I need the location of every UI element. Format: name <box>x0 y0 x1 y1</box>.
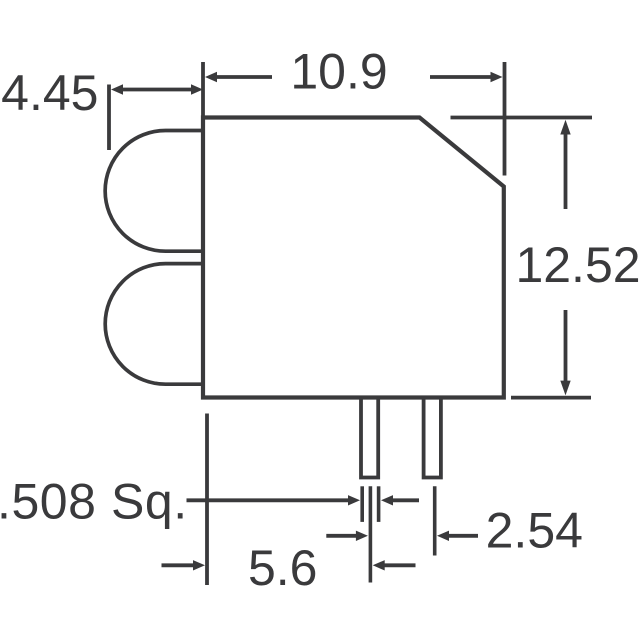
extension line 12.52 top <box>451 116 593 120</box>
arrowhead 10.9 right <box>491 72 503 82</box>
arrowhead 5.6 right <box>373 560 385 570</box>
arrowhead 2.54 left <box>356 531 368 541</box>
svg-text:12.52: 12.52 <box>515 237 640 293</box>
dimension line 10.9 left segment <box>214 75 272 79</box>
svg-text:5.6: 5.6 <box>248 540 318 596</box>
extension line pin1 left edge <box>360 486 364 522</box>
extension line right of body top (10.9 right) <box>503 62 507 176</box>
LED dome 2 <box>105 264 203 385</box>
dimension line 12.52 lower segment <box>564 310 568 383</box>
extension line left of body top (10.9 left / 4.45 right) <box>201 62 205 118</box>
svg-text:.508 Sq.: .508 Sq. <box>0 474 188 530</box>
component body outline <box>203 118 504 398</box>
arrowhead 5.6 left <box>193 560 205 570</box>
dimension line .508 Sq. right shaft <box>392 498 419 502</box>
LED dome 1 <box>105 131 203 252</box>
extension line 4.45 left <box>107 85 111 151</box>
arrowhead 4.45 right <box>191 84 203 94</box>
extension line 12.52 bottom <box>511 396 591 400</box>
extension line body left edge extended down (5.6 left) <box>205 414 209 586</box>
svg-text:10.9: 10.9 <box>290 44 387 100</box>
dimension line 5.6 left arrow shaft <box>162 563 195 567</box>
pin 2 <box>424 398 441 478</box>
dimension line 10.9 right segment <box>430 75 493 79</box>
arrowhead 2.54 right <box>437 531 449 541</box>
svg-text:4.45: 4.45 <box>1 65 98 121</box>
dimension line 4.45 <box>122 88 192 92</box>
arrowhead 12.52 top <box>560 120 570 135</box>
dimension line 5.6 right arrow shaft <box>384 563 416 567</box>
pin 1 <box>361 398 378 478</box>
arrowhead .508 right <box>381 495 393 505</box>
dimension line 2.54 left arrow shaft <box>326 534 357 538</box>
dimension line 2.54 right arrow shaft <box>448 534 478 538</box>
dimension line 12.52 upper segment <box>564 132 568 209</box>
arrowhead 10.9 left <box>205 72 217 82</box>
arrowhead 4.45 left <box>111 84 123 94</box>
arrowhead 12.52 bottom <box>560 381 570 396</box>
extension line pin1 right edge <box>377 486 381 522</box>
extension line pin2 center <box>433 486 437 555</box>
extension line pin1 center <box>369 486 373 582</box>
dimension line .508 Sq. left shaft <box>187 498 350 502</box>
svg-text:2.54: 2.54 <box>486 503 583 559</box>
arrowhead .508 left <box>348 495 360 505</box>
